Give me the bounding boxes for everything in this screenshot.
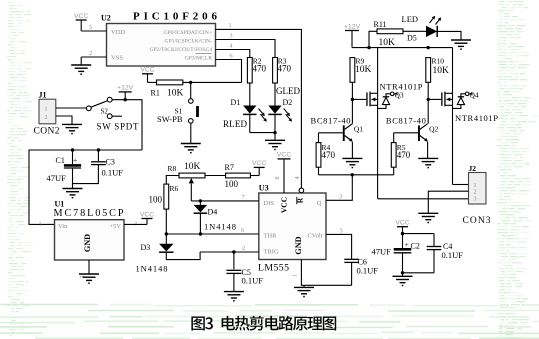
- svg-text:MC78L05CP: MC78L05CP: [54, 208, 124, 219]
- wire U3 CV pin5 to C6: [326, 234, 352, 258]
- wire U3 DIS pin7: [191, 200, 258, 202]
- power +12V top: [344, 23, 361, 47]
- wire J2 pin2 to ground: [428, 191, 468, 213]
- junction R6-D3 node: [165, 232, 168, 235]
- vcc VCC R1: [140, 67, 156, 83]
- svg-text:R7: R7: [225, 163, 234, 172]
- svg-text:6: 6: [241, 227, 244, 234]
- svg-text:6: 6: [230, 52, 233, 59]
- ground Q1: [342, 158, 362, 167]
- wire emitter rail: [319, 167, 394, 175]
- svg-text:THR: THR: [264, 232, 278, 239]
- junction D-gnd: [273, 131, 276, 134]
- svg-text:GND: GND: [83, 234, 92, 252]
- svg-text:Q1: Q1: [354, 125, 363, 134]
- svg-text:470: 470: [322, 150, 336, 160]
- svg-text:0.1UF: 0.1UF: [102, 168, 124, 178]
- wire J1 pin1 to S2: [56, 107, 87, 109]
- svg-text:PIC10F206: PIC10F206: [133, 11, 218, 23]
- svg-text:VDD: VDD: [111, 29, 126, 36]
- svg-text:2: 2: [242, 245, 245, 252]
- wire R11 to D5: [403, 30, 426, 32]
- svg-text:GP1/ICSPCLK/CIN-: GP1/ICSPCLK/CIN-: [164, 38, 212, 44]
- capacitor C1 47UF: [47, 150, 82, 189]
- wire S2 to +12V rail: [112, 100, 142, 150]
- switch S1 SW-PB: [157, 82, 199, 143]
- junction C5 tap: [232, 250, 235, 253]
- LED D2 GLED: [268, 86, 300, 133]
- svg-text:R6: R6: [170, 184, 179, 193]
- svg-text:SW-PB: SW-PB: [157, 114, 183, 124]
- svg-text:3: 3: [474, 196, 477, 202]
- svg-text:10K: 10K: [355, 65, 372, 75]
- vcc VCC U1 out: [140, 211, 154, 224]
- ground C1: [63, 189, 83, 198]
- resistor R3 470: [273, 57, 292, 84]
- diode D4 1N4148: [194, 201, 236, 234]
- wire R3 to D2: [274, 83, 276, 106]
- resistor R6 100: [149, 184, 179, 209]
- vcc VCC U2-VDD: [74, 13, 106, 31]
- ground U1: [79, 274, 99, 283]
- wire R8 left to R6: [166, 176, 179, 185]
- switch S2 SW SPDT: [86, 97, 139, 131]
- capacitor C5 0.1UF: [226, 252, 263, 292]
- LED D1 RLED: [223, 98, 267, 133]
- svg-text:1N4148: 1N4148: [204, 222, 236, 232]
- svg-text:1: 1: [474, 183, 477, 189]
- svg-text:LM555: LM555: [258, 263, 289, 274]
- svg-text:8: 8: [274, 176, 281, 179]
- svg-text:VCC: VCC: [277, 152, 291, 159]
- capacitor C2 47UF: [372, 234, 420, 273]
- svg-text:D4: D4: [208, 208, 218, 217]
- IC U3 LM555: [241, 176, 343, 277]
- svg-text:VCC: VCC: [252, 160, 266, 167]
- svg-text:R8: R8: [168, 164, 177, 173]
- potentiometer R8 10K: [168, 162, 206, 201]
- svg-text:VSS: VSS: [111, 55, 123, 62]
- ground C2: [393, 273, 413, 286]
- svg-text:BC817-40: BC817-40: [311, 115, 351, 125]
- resistor R7 100: [225, 163, 251, 189]
- svg-text:4: 4: [230, 42, 233, 49]
- wire U3 THR pin6: [166, 233, 258, 235]
- svg-text:U3: U3: [259, 184, 269, 193]
- resistor R10 10K: [426, 57, 449, 83]
- ground J2: [418, 213, 438, 222]
- transistor Q4 NTR4101P: [428, 48, 498, 185]
- svg-text:Q2: Q2: [429, 125, 438, 134]
- svg-text:+: +: [405, 240, 409, 249]
- svg-text:R1: R1: [151, 89, 160, 98]
- connector J1 CON2: [34, 91, 60, 137]
- svg-text:GND: GND: [294, 236, 303, 254]
- svg-text:C2: C2: [411, 242, 420, 251]
- svg-text:4: 4: [294, 176, 301, 179]
- svg-text:DIS: DIS: [264, 200, 275, 207]
- svg-text:VCC: VCC: [140, 67, 154, 74]
- svg-text:SW SPDT: SW SPDT: [97, 122, 140, 132]
- svg-text:470: 470: [278, 64, 292, 74]
- svg-text:C1: C1: [56, 156, 65, 165]
- svg-text:CON2: CON2: [34, 127, 60, 137]
- power +12V S2: [117, 85, 134, 102]
- svg-text:2: 2: [474, 190, 477, 196]
- svg-text:VCC: VCC: [395, 220, 409, 227]
- svg-text:1: 1: [39, 220, 42, 227]
- svg-text:3: 3: [134, 220, 137, 227]
- svg-text:C3: C3: [106, 158, 115, 167]
- LED D5: [402, 14, 442, 43]
- svg-text:100: 100: [149, 195, 163, 205]
- wire R9 to Q1: [351, 82, 353, 123]
- wire U1 pin3 to VCC: [124, 223, 147, 225]
- svg-text:D2: D2: [283, 98, 293, 107]
- junction C2 bottom: [401, 271, 404, 274]
- resistor R1 10K: [151, 80, 184, 99]
- svg-text:Q: Q: [317, 200, 322, 207]
- svg-text:Q4: Q4: [470, 90, 479, 99]
- junction D4-THR node: [199, 232, 202, 235]
- svg-text:S2: S2: [101, 108, 109, 116]
- transistor Q1 BC817-40: [311, 115, 364, 158]
- wire R1 to node A: [183, 81, 242, 83]
- svg-text:J1: J1: [39, 91, 47, 100]
- svg-text:U2: U2: [101, 14, 111, 23]
- wire U3 TRIG pin2: [200, 251, 259, 253]
- svg-text:Vin: Vin: [58, 223, 68, 230]
- svg-text:VCC: VCC: [280, 197, 289, 213]
- svg-text:0.1UF: 0.1UF: [242, 276, 264, 286]
- svg-text:Q3: Q3: [395, 90, 404, 99]
- svg-text:+12V: +12V: [117, 85, 134, 92]
- svg-text:CON3: CON3: [463, 216, 491, 226]
- wire U3 Q pin3 to rail: [326, 175, 352, 201]
- wire U2 pin6 to S1 node: [216, 60, 242, 83]
- ground D1 D2: [265, 140, 285, 149]
- ground D5: [451, 40, 471, 49]
- svg-text:2: 2: [89, 50, 92, 57]
- svg-text:D3: D3: [141, 243, 151, 252]
- svg-text:D5: D5: [407, 34, 417, 43]
- junction R10 tap: [427, 46, 430, 49]
- svg-text:+12V: +12V: [344, 23, 361, 30]
- svg-text:GP2/T0CKI/COUT/FOSC4: GP2/T0CKI/COUT/FOSC4: [150, 47, 213, 53]
- IC U1 MC78L05CP: [39, 200, 138, 279]
- wire U2 pin4 to R2: [216, 50, 250, 58]
- junction Q3 gate: [351, 98, 354, 101]
- svg-text:5: 5: [89, 24, 92, 31]
- svg-text:47UF: 47UF: [372, 247, 392, 257]
- resistor R2 470: [247, 57, 266, 84]
- wire C2-C4 top: [403, 234, 435, 246]
- svg-text:10K: 10K: [167, 89, 184, 99]
- wire U2 pin1 to U3 pin4: [216, 29, 302, 188]
- svg-text:470: 470: [253, 64, 267, 74]
- wire U1 pin2 gnd: [88, 260, 90, 274]
- ground C5: [224, 292, 244, 301]
- svg-text:+5V: +5V: [109, 223, 121, 230]
- vcc VCC C2: [395, 220, 409, 234]
- capacitor C6 0.1UF: [344, 258, 378, 286]
- svg-text:10K: 10K: [379, 38, 396, 48]
- wire R8 right to R7: [205, 175, 226, 177]
- svg-text:1: 1: [229, 22, 232, 29]
- junction R11 tap: [367, 46, 370, 49]
- svg-text:GP0/ICSPDAT/CIN+: GP0/ICSPDAT/CIN+: [163, 30, 212, 36]
- junction rail-Q: [351, 173, 354, 176]
- wire J1 pin2 to ground: [56, 116, 72, 124]
- svg-text:10K: 10K: [433, 66, 450, 76]
- wire Q3 drain to J2 pin3: [378, 198, 469, 200]
- svg-text:GLED: GLED: [276, 86, 301, 96]
- svg-text:3: 3: [339, 194, 342, 201]
- junction Q4 gate: [427, 98, 430, 101]
- ground U2-VSS: [71, 57, 106, 74]
- svg-text:47UF: 47UF: [47, 173, 67, 183]
- junction C2 top: [401, 232, 404, 235]
- capacitor C4 0.1UF: [427, 242, 464, 273]
- wire U2 pin3 to R3: [216, 40, 276, 58]
- svg-text:0.1UF: 0.1UF: [357, 266, 379, 276]
- ground J1: [62, 124, 82, 133]
- wire R2 to D1: [249, 83, 251, 106]
- ground Q2: [418, 158, 438, 167]
- wire Q4 drain to J2 pin1: [453, 184, 469, 186]
- svg-text:+: +: [73, 156, 77, 165]
- svg-text:R11: R11: [374, 20, 387, 29]
- resistor R4 470: [316, 133, 335, 167]
- capacitor C3 0.1UF: [73, 150, 124, 184]
- svg-text:5: 5: [340, 228, 343, 235]
- ground S1: [181, 144, 201, 153]
- transistor Q2 BC817-40: [386, 115, 439, 158]
- wire U3 pin1: [301, 260, 351, 286]
- IC U2 PIC10F206: [89, 11, 233, 67]
- svg-text:R10: R10: [432, 57, 445, 66]
- junction D4 tap: [199, 199, 202, 202]
- wire R7 to VCC: [250, 175, 259, 177]
- ground U3: [294, 285, 314, 296]
- svg-text:RLED: RLED: [223, 119, 248, 129]
- svg-text:GP3/MCLR: GP3/MCLR: [185, 55, 213, 61]
- svg-text:D1: D1: [231, 98, 241, 107]
- junction node A: [189, 81, 192, 84]
- pin U3 pin4 bubble: [299, 188, 304, 193]
- svg-text:CVolt: CVolt: [307, 232, 322, 239]
- wire R11 branch: [369, 31, 377, 47]
- svg-text:1N4148: 1N4148: [136, 264, 168, 274]
- wire D1 to D2 gnd: [250, 132, 275, 134]
- svg-text:1: 1: [45, 107, 48, 113]
- svg-text:1: 1: [292, 274, 299, 277]
- resistor R9 10K: [350, 57, 372, 83]
- wire R10 to Q2: [427, 82, 429, 123]
- svg-text:3: 3: [230, 32, 233, 39]
- svg-text:BC817-40: BC817-40: [386, 115, 426, 125]
- svg-text:7: 7: [242, 194, 245, 201]
- caption 图3 电热剪电路原理图: [191, 316, 336, 331]
- diode D3 1N4148: [136, 243, 201, 274]
- wire 12V rail: [29, 150, 142, 224]
- wire C2-C4 bottom: [403, 272, 435, 274]
- svg-text:NTR4101P: NTR4101P: [455, 113, 498, 123]
- wire 12V top rail: [352, 47, 453, 49]
- vcc VCC U3 pin8: [277, 152, 291, 193]
- svg-text:100: 100: [225, 179, 239, 189]
- junction C1 tap: [71, 148, 74, 151]
- resistor R5 470: [391, 133, 410, 167]
- svg-text:2: 2: [45, 115, 48, 121]
- svg-text:VCC: VCC: [140, 211, 154, 218]
- vcc VCC R7: [252, 160, 266, 175]
- svg-text:VCC: VCC: [74, 13, 88, 20]
- transistor Q3 NTR4101P: [352, 48, 422, 199]
- wire R6 to D3: [165, 209, 167, 244]
- svg-text:470: 470: [397, 150, 411, 160]
- wire D5 to ground: [437, 31, 461, 40]
- svg-text:J2: J2: [469, 164, 477, 173]
- resistor R11 10K: [374, 20, 404, 48]
- svg-text:10K: 10K: [184, 162, 201, 172]
- svg-text:LED: LED: [402, 14, 419, 24]
- svg-text:TRIG: TRIG: [264, 249, 279, 256]
- connector J2 CON3: [463, 164, 491, 226]
- wire D2 to ground: [274, 133, 276, 141]
- svg-text:0.1UF: 0.1UF: [442, 250, 464, 260]
- junction C3 tap: [97, 148, 100, 151]
- svg-text:NTR4101P: NTR4101P: [380, 82, 423, 92]
